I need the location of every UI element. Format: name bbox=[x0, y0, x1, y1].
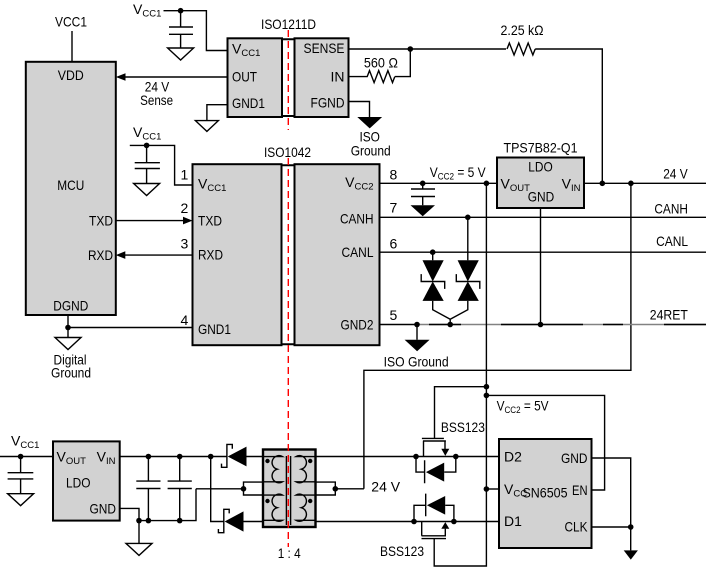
wire transformer secondary top to SN6505 D2 bbox=[316, 456, 500, 458]
svg-text:EN: EN bbox=[572, 482, 588, 498]
junction (Q1 right) bbox=[453, 454, 459, 460]
svg-text:24RET: 24RET bbox=[650, 307, 688, 323]
junction (SENSE/560) bbox=[408, 46, 414, 52]
ground (C4) bbox=[8, 494, 34, 506]
junction (Q1 gate branch) bbox=[484, 384, 490, 390]
junction (CLK/GND) bbox=[628, 524, 634, 530]
ISO ground (FGND) bbox=[351, 117, 391, 159]
svg-text:5: 5 bbox=[390, 307, 398, 323]
junction (VCC2 rail) bbox=[484, 181, 490, 187]
ground (C1) bbox=[168, 48, 194, 60]
regulator U5 LDO block bbox=[53, 441, 120, 520]
winding (left top) bbox=[263, 456, 283, 483]
wire ISO1042 RXD to MCU RXD bbox=[116, 251, 193, 259]
svg-text:2: 2 bbox=[181, 200, 189, 216]
junction bbox=[65, 325, 71, 331]
svg-text:2.25 kΩ: 2.25 kΩ bbox=[501, 22, 544, 38]
svg-text:LDO: LDO bbox=[66, 475, 91, 491]
phase dot (left top) bbox=[265, 459, 269, 463]
svg-text:IN: IN bbox=[331, 68, 345, 84]
ground (LDO GND) bbox=[126, 521, 152, 556]
wire VCC2 rail down to SN6505 and Q2 gate bbox=[434, 183, 486, 566]
phase dot (left bottom) bbox=[265, 499, 269, 503]
ISO ground (24RET) bbox=[384, 325, 449, 370]
wire ISO1211D OUT to MCU VDD (24 V Sense) bbox=[116, 73, 228, 108]
wire SN6505 VCC pin stub bbox=[486, 488, 499, 490]
winding (right bottom) bbox=[296, 494, 316, 521]
wire left center tap bbox=[196, 482, 263, 495]
winding (right top) bbox=[296, 456, 316, 483]
transformer T1 block bbox=[263, 450, 316, 528]
svg-text:6: 6 bbox=[390, 236, 398, 252]
svg-text:560 Ω: 560 Ω bbox=[364, 54, 398, 70]
svg-text:RXD: RXD bbox=[88, 247, 113, 263]
ground (Digital Ground) bbox=[51, 338, 91, 381]
svg-text:CANL: CANL bbox=[656, 233, 688, 249]
wire right center tap (24 V) bbox=[316, 478, 401, 495]
phase dot (right bottom) bbox=[308, 499, 312, 503]
capacitor C3 bbox=[411, 183, 435, 205]
junction bbox=[241, 486, 247, 492]
isolation barrier (ISO1211D) bbox=[287, 30, 289, 130]
junction (24V down branch) bbox=[628, 181, 634, 187]
wire 24V branch to transformer center tap bbox=[364, 183, 631, 489]
isolator U2 ISO1211D block bbox=[228, 16, 349, 117]
wire transformer secondary bottom to SN6505 D1 bbox=[316, 521, 500, 523]
svg-text:TXD: TXD bbox=[89, 212, 113, 228]
ground (GND1) bbox=[195, 121, 218, 132]
junction bbox=[144, 143, 150, 149]
wire FGND to ISO ground bbox=[349, 102, 370, 118]
svg-text:24 V: 24 V bbox=[371, 478, 400, 494]
junction (TVS D5 on CANL) bbox=[430, 249, 436, 255]
svg-text:1: 1 bbox=[181, 167, 189, 183]
svg-text:VDD: VDD bbox=[58, 67, 84, 83]
svg-text:Sense: Sense bbox=[140, 92, 173, 108]
svg-text:7: 7 bbox=[390, 200, 398, 216]
svg-text:D1: D1 bbox=[504, 513, 522, 529]
svg-text:8: 8 bbox=[390, 166, 398, 182]
junction bbox=[333, 486, 339, 492]
transistor Q2 BSS123 (bottom) bbox=[380, 494, 454, 559]
wire LDO GND rail bbox=[120, 489, 196, 521]
junction (TVS return) bbox=[447, 322, 453, 328]
junction (C6 bottom) bbox=[177, 518, 183, 524]
svg-text:GND1: GND1 bbox=[198, 321, 231, 337]
wire SENSE net bbox=[349, 48, 507, 50]
junction (D4 branch) bbox=[208, 454, 214, 460]
junction (Q1 left) bbox=[413, 454, 419, 460]
svg-text:SENSE: SENSE bbox=[304, 40, 345, 56]
junction (TPS GND) bbox=[538, 322, 544, 328]
transformer core bbox=[286, 456, 290, 525]
svg-text:CANH: CANH bbox=[340, 210, 374, 226]
capacitor C1 bbox=[169, 11, 193, 48]
svg-text:4: 4 bbox=[181, 312, 189, 328]
wire TPS GND to 24RET bbox=[540, 208, 542, 325]
node VCC1 (MCU supply) bbox=[55, 13, 87, 29]
svg-text:OUT: OUT bbox=[232, 68, 257, 84]
wire IN to SENSE junction bbox=[395, 49, 410, 77]
regulator U4 TPS7B82-Q1 block bbox=[497, 140, 584, 209]
wire 24RET (to right edge) bbox=[417, 307, 706, 325]
wire VCC1 to ISO1042 pin1 bbox=[130, 145, 193, 185]
schottky diode D4 (bottom) bbox=[218, 509, 243, 532]
wire DGND net (MCU DGND to ISO1042 GND1) bbox=[68, 315, 193, 338]
svg-text:GND: GND bbox=[561, 450, 588, 466]
wire D4 branch down bbox=[211, 457, 224, 522]
svg-text:ISO Ground: ISO Ground bbox=[384, 354, 449, 370]
svg-text:D2: D2 bbox=[504, 449, 522, 465]
svg-text:FGND: FGND bbox=[311, 95, 345, 111]
wire Q1 gate branch bbox=[435, 387, 487, 439]
node VCC1 (ISO1211D supply) bbox=[133, 1, 161, 20]
junction (EN branch) bbox=[484, 393, 490, 399]
wire CANL (pin6 to right edge) bbox=[380, 233, 706, 252]
svg-text:GND: GND bbox=[528, 189, 555, 205]
svg-text:SN6505: SN6505 bbox=[523, 485, 568, 501]
MCU U1 block bbox=[26, 62, 116, 315]
TVS diode D5 (CANL) bbox=[421, 252, 450, 319]
phase dot (right top) bbox=[308, 459, 312, 463]
junction (C6 top) bbox=[177, 454, 183, 460]
wire 24 V rail (TPS VIN to right edge) bbox=[584, 166, 706, 184]
junction (Q2 right) bbox=[451, 519, 457, 525]
svg-text:TXD: TXD bbox=[198, 213, 222, 229]
wire VCC1 to ISO1211D VCC1 pin bbox=[164, 11, 228, 51]
ground (C2) bbox=[134, 184, 160, 196]
capacitor C2 bbox=[135, 145, 160, 183]
transistor Q1 BSS123 (top) bbox=[416, 419, 485, 483]
junction bbox=[420, 181, 426, 187]
junction (gnd stem) bbox=[136, 518, 142, 524]
junction (C5 bottom) bbox=[146, 518, 152, 524]
svg-text:MCU: MCU bbox=[57, 177, 84, 193]
wire LDO VIN to transformer (D2 primary) bbox=[120, 456, 263, 458]
wire D4 to transformer (D1 primary) bbox=[244, 521, 264, 523]
wire CANH (pin7 to right edge) bbox=[380, 201, 706, 218]
capacitor C4 bbox=[8, 457, 34, 494]
capacitor C6 bbox=[168, 457, 192, 521]
wire VCC2 net (pin8 to TPS VOUT) bbox=[380, 182, 498, 184]
svg-text:GND1: GND1 bbox=[232, 95, 265, 111]
svg-text:BSS123: BSS123 bbox=[441, 419, 485, 435]
svg-text:Ground: Ground bbox=[51, 365, 91, 381]
svg-text:TPS7B82-Q1: TPS7B82-Q1 bbox=[504, 140, 578, 156]
junction bbox=[178, 8, 184, 14]
TVS diode D6 (CANH) bbox=[450, 217, 480, 319]
resistor R2 2.25 kOhm bbox=[501, 22, 544, 55]
wire SN6505 GND to CLK bbox=[592, 458, 631, 527]
svg-text:VCC2 = 5V: VCC2 = 5V bbox=[497, 398, 550, 417]
svg-text:GND2: GND2 bbox=[341, 317, 374, 333]
ISO ground (SN6505) bbox=[624, 527, 638, 560]
transceiver U3 ISO1042 block bbox=[193, 144, 380, 345]
svg-text:CANH: CANH bbox=[654, 201, 688, 217]
svg-text:3: 3 bbox=[181, 235, 189, 251]
svg-text:ISO1042: ISO1042 bbox=[264, 144, 311, 160]
svg-text:Ground: Ground bbox=[351, 143, 391, 159]
wire R2 to 24V rail bbox=[535, 49, 602, 183]
junction (2.25k feed) bbox=[600, 181, 606, 187]
svg-text:CANL: CANL bbox=[342, 244, 374, 260]
svg-text:LDO: LDO bbox=[528, 158, 553, 174]
wire TVS common to GND2 line bbox=[449, 319, 451, 324]
wire VCC1 to LDO VOUT bbox=[0, 456, 53, 458]
wire ISO1211D GND1 to ground bbox=[207, 105, 228, 121]
node VCC1 (ISO1042 supply) bbox=[133, 124, 161, 143]
junction (SN6505 VCC) bbox=[484, 486, 490, 492]
wire MCU TXD to ISO1042 TXD bbox=[116, 217, 193, 225]
driver U6 SN6505 block bbox=[499, 439, 592, 548]
ISO ground (C3) bbox=[411, 205, 436, 216]
junction bbox=[18, 454, 24, 460]
svg-text:BSS123: BSS123 bbox=[380, 543, 424, 559]
wire GND2 (pin5) bbox=[380, 324, 418, 326]
wire VCC1 to MCU VDD bbox=[71, 31, 73, 62]
isolation barrier (ISO1042) bbox=[287, 158, 289, 547]
svg-text:24 V: 24 V bbox=[663, 166, 688, 182]
svg-text:1 : 4: 1 : 4 bbox=[278, 545, 301, 561]
svg-text:ISO1211D: ISO1211D bbox=[261, 16, 316, 32]
capacitor C5 bbox=[136, 457, 160, 521]
wire EN branch bbox=[486, 395, 604, 490]
svg-text:DGND: DGND bbox=[53, 298, 88, 314]
junction (ISO ground tap) bbox=[414, 322, 420, 328]
svg-text:CLK: CLK bbox=[565, 519, 589, 535]
svg-text:RXD: RXD bbox=[198, 247, 223, 263]
junction (TVS D6 on CANH) bbox=[465, 215, 471, 221]
winding (left bottom) bbox=[263, 494, 283, 521]
junction (C5 top) bbox=[146, 454, 152, 460]
junction (Q2 left) bbox=[411, 519, 417, 525]
svg-text:GND: GND bbox=[90, 501, 117, 517]
svg-text:VCC1: VCC1 bbox=[55, 13, 87, 29]
schottky diode D3 (top) bbox=[222, 444, 247, 467]
resistor R1 560 Ohm bbox=[349, 54, 398, 82]
